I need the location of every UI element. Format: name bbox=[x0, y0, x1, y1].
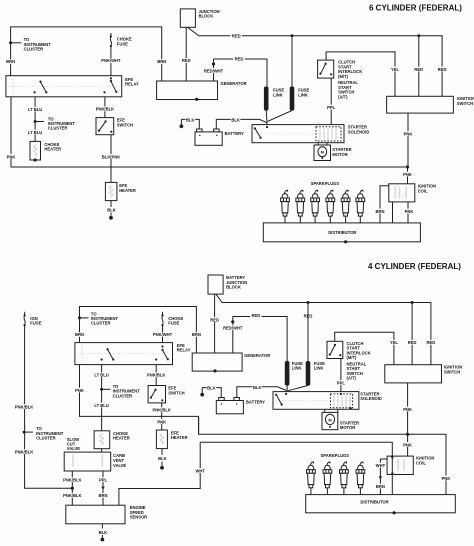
svg-text:MOTOR: MOTOR bbox=[340, 425, 355, 430]
svg-text:MOTOR: MOTOR bbox=[332, 152, 347, 157]
wire BLK + ground below sensor bbox=[101, 524, 103, 529]
wire BLK battery positive to solenoid bbox=[216, 119, 266, 129]
wire PNK ignition switch to coil bbox=[407, 113, 409, 167]
svg-text:PNK/BLK: PNK/BLK bbox=[152, 408, 170, 413]
svg-text:FUSE: FUSE bbox=[117, 41, 128, 46]
wire PNK coil to distributor bbox=[407, 202, 409, 223]
svg-text:BRN: BRN bbox=[376, 209, 385, 214]
wire RED tap 2 label bbox=[437, 67, 447, 72]
label PNK/WHT bbox=[101, 58, 121, 63]
svg-text:LINK: LINK bbox=[273, 93, 283, 98]
wire coil primary loop (bottom) bbox=[200, 442, 392, 456]
svg-text:(A/T): (A/T) bbox=[338, 95, 348, 100]
wire main feed (bottom RED bus) bbox=[216, 294, 431, 365]
svg-text:WHT: WHT bbox=[195, 469, 205, 474]
svg-text:FUSE: FUSE bbox=[30, 321, 41, 326]
switch clutch start interlock (bottom) bbox=[327, 341, 343, 358]
svg-text:BLK: BLK bbox=[158, 456, 167, 461]
svg-text:SOLENOID: SOLENOID bbox=[360, 396, 382, 401]
solenoid winding (bottom) bbox=[330, 394, 352, 408]
connector arrow (WHT to BRN) bbox=[379, 476, 382, 479]
sparkplug 5 (top) bbox=[341, 190, 350, 223]
svg-text:PNK/BLK: PNK/BLK bbox=[96, 107, 114, 112]
wire coil secondary to distributor bbox=[392, 202, 394, 223]
svg-text:CLUSTER: CLUSTER bbox=[91, 321, 111, 326]
wire RED to fuse link 1 bbox=[214, 59, 268, 87]
wire PNK bus (bottom) bbox=[199, 416, 446, 494]
wire instrument cluster loop (BRN) bbox=[11, 27, 162, 81]
battery B2 (bottom) bbox=[219, 398, 225, 401]
svg-text:SPARKPLUGS: SPARKPLUGS bbox=[311, 181, 340, 186]
battery B1 (top) bbox=[197, 129, 203, 132]
battery junction block (bottom) bbox=[208, 275, 223, 294]
node to instrument cluster (ign fuse wire) bbox=[23, 431, 26, 434]
switch clutch start interlock (top) bbox=[318, 60, 334, 78]
svg-text:PNK: PNK bbox=[7, 154, 16, 159]
svg-text:BATTERY: BATTERY bbox=[246, 399, 265, 404]
wire RED tap 2 label (bottom) bbox=[426, 340, 436, 345]
svg-text:HEATER: HEATER bbox=[171, 435, 188, 440]
wire BLK + ground below EFE heater (bottom) bbox=[161, 449, 163, 455]
svg-text:PPL: PPL bbox=[327, 105, 336, 110]
svg-text:PNK/WHT: PNK/WHT bbox=[153, 332, 173, 337]
svg-text:PNK/BLK: PNK/BLK bbox=[147, 373, 165, 378]
sparkplug 1 (bottom) bbox=[307, 462, 316, 495]
distributor (bottom) bbox=[306, 495, 456, 513]
label PNK/WHT (bottom) bbox=[153, 332, 173, 337]
node fuse link 2 tap (bottom) bbox=[307, 301, 310, 304]
svg-text:LINK: LINK bbox=[314, 366, 324, 371]
svg-text:GENERATOR: GENERATOR bbox=[244, 353, 270, 358]
wire PPL interlock to solenoid bbox=[330, 78, 332, 125]
svg-text:LT BLU: LT BLU bbox=[28, 107, 42, 112]
svg-text:SPARKPLUGS: SPARKPLUGS bbox=[321, 453, 350, 458]
svg-text:GENERATOR: GENERATOR bbox=[221, 81, 247, 86]
wire PNK/BLK relay to EFE switch bbox=[104, 97, 106, 118]
sparkplug 4 (top) bbox=[326, 190, 335, 223]
svg-text:YEL: YEL bbox=[391, 67, 400, 72]
svg-text:RED: RED bbox=[438, 67, 447, 72]
wire PNK/BLK valve to sensor bbox=[71, 471, 73, 505]
svg-text:CLUSTER: CLUSTER bbox=[48, 126, 68, 131]
svg-text:(M/T): (M/T) bbox=[338, 74, 349, 79]
switch EFE SWITCH (top) bbox=[96, 118, 114, 135]
svg-text:PNK/BLK: PNK/BLK bbox=[15, 404, 33, 409]
node ignition switch RED tap bbox=[417, 34, 420, 37]
wire RED tap 1 bbox=[418, 36, 420, 97]
wire PPL/BRN valve to sensor bbox=[102, 471, 104, 505]
wire BLK battery positive to solenoid (bottom) bbox=[237, 387, 286, 398]
wire RED junction block to generator bbox=[185, 27, 187, 81]
wire instrument cluster loop (BRN, bottom diagram) bbox=[80, 307, 197, 354]
wire WHT/BRN coil to distributor (bottom) bbox=[380, 459, 387, 495]
svg-text:PNK: PNK bbox=[405, 209, 414, 214]
svg-text:PNK: PNK bbox=[157, 419, 166, 424]
wire RED to fuse link 1 (bottom) bbox=[233, 317, 287, 362]
svg-text:RED: RED bbox=[182, 58, 191, 63]
node to instrument cluster (LT BLU, bottom) bbox=[100, 388, 103, 391]
wire LT BLU relay to choke heater (bottom) bbox=[101, 365, 103, 431]
svg-text:WHT: WHT bbox=[376, 463, 386, 468]
fuse IGN FUSE bbox=[24, 312, 26, 315]
svg-text:6 CYLINDER (FEDERAL): 6 CYLINDER (FEDERAL) bbox=[369, 4, 462, 13]
junction block J1 bbox=[180, 9, 195, 27]
fuse link 1 bbox=[264, 87, 269, 111]
solenoid winding bbox=[316, 127, 341, 141]
relay switch contact left (bottom) bbox=[101, 358, 103, 360]
svg-text:RED: RED bbox=[427, 340, 436, 345]
wire BLK + ground below EFE heater bbox=[110, 201, 112, 207]
ignition switch (top) bbox=[387, 96, 454, 113]
node fuse link 2 tap bbox=[291, 34, 294, 37]
svg-text:BRN: BRN bbox=[376, 484, 385, 489]
svg-text:BLK/PNK: BLK/PNK bbox=[102, 154, 120, 159]
svg-text:PNK: PNK bbox=[442, 476, 451, 481]
fuse link 2 bbox=[291, 36, 293, 87]
svg-text:BLK: BLK bbox=[107, 207, 116, 212]
node junction ign fuse + carb valve wire bbox=[71, 487, 74, 490]
svg-text:PNK: PNK bbox=[75, 388, 84, 393]
svg-text:VALVE: VALVE bbox=[113, 463, 126, 468]
coil IGNITION COIL (bottom) bbox=[387, 456, 413, 474]
svg-text:(M/T): (M/T) bbox=[347, 355, 358, 360]
svg-text:BLK: BLK bbox=[231, 117, 240, 122]
svg-text:DISTRIBUTOR: DISTRIBUTOR bbox=[360, 500, 388, 505]
coil IGNITION COIL (top) bbox=[389, 184, 415, 202]
wire PNK/BLK ign fuse to engine speed sensor junction bbox=[25, 326, 73, 488]
choke fuse F1 bbox=[110, 33, 112, 35]
wire RED/WHT generator tap (bottom) bbox=[231, 320, 234, 323]
ground (EFE heater bottom) bbox=[160, 466, 164, 470]
node to instrument cluster (bottom left) bbox=[78, 316, 81, 319]
svg-text:CLUSTER: CLUSTER bbox=[24, 47, 44, 52]
sparkplug 2 (top) bbox=[296, 190, 305, 223]
svg-text:BLK: BLK bbox=[99, 530, 108, 535]
svg-text:CLUSTER: CLUSTER bbox=[36, 436, 56, 441]
wire PNK ignition switch to PNK bus (bottom) bbox=[407, 383, 409, 434]
svg-text:COIL: COIL bbox=[418, 188, 428, 193]
svg-text:RED: RED bbox=[232, 33, 241, 38]
ground (battery BLK) bbox=[180, 124, 184, 128]
svg-text:PNK: PNK bbox=[403, 442, 412, 447]
wire PNK relay down-left (bottom) bbox=[80, 365, 199, 417]
svg-text:RED: RED bbox=[408, 340, 417, 345]
svg-text:RED/WHT: RED/WHT bbox=[223, 326, 243, 331]
svg-text:LT BLU: LT BLU bbox=[94, 373, 108, 378]
svg-text:PNK/BLK: PNK/BLK bbox=[63, 493, 81, 498]
svg-text:BLOCK: BLOCK bbox=[199, 14, 214, 19]
wire WHT to engine speed sensor bbox=[119, 442, 200, 505]
sparkplug 1 (top) bbox=[281, 190, 290, 223]
distributor (top) bbox=[263, 223, 420, 242]
generator G1 (top) bbox=[157, 81, 218, 100]
svg-text:HEATER: HEATER bbox=[113, 436, 130, 441]
motor STARTER MOTOR (top) bbox=[317, 143, 319, 145]
wire interlock to YEL ignition feed (bottom) bbox=[335, 332, 394, 364]
relay switch contact right bbox=[110, 77, 112, 79]
svg-text:RED: RED bbox=[210, 317, 219, 322]
relay switch contact right (bottom) bbox=[161, 345, 163, 347]
wire RED battery junction block to generator bbox=[214, 294, 216, 353]
relay switch contact left bbox=[34, 91, 36, 93]
relay EFE RELAY (top) bbox=[6, 76, 122, 97]
svg-text:RED: RED bbox=[235, 57, 244, 62]
ground (EFE heater top) bbox=[109, 216, 113, 220]
svg-text:RED: RED bbox=[414, 67, 423, 72]
svg-text:PNK/BLK: PNK/BLK bbox=[63, 478, 81, 483]
svg-text:DISTRIBUTOR: DISTRIBUTOR bbox=[328, 230, 356, 235]
wire V junction into starter solenoid bbox=[266, 121, 268, 125]
wire main feed from junction block (top RED bus) bbox=[188, 27, 443, 96]
fuse link 1 (bottom) bbox=[285, 361, 290, 386]
svg-text:BRN: BRN bbox=[192, 332, 201, 337]
wire V junction into starter solenoid (bottom) bbox=[286, 390, 288, 392]
label BRN (generator wire) bbox=[157, 59, 166, 64]
wire PNK into EFE heater (bottom) bbox=[161, 416, 163, 430]
connector arrow (PPL to BRN) bbox=[101, 487, 104, 490]
relay EFE RELAY (bottom) bbox=[75, 343, 173, 365]
coil through pin dots bbox=[391, 456, 393, 458]
svg-text:CLUSTER: CLUSTER bbox=[113, 393, 133, 398]
choke heater (bottom) bbox=[94, 431, 110, 449]
svg-text:BLOCK: BLOCK bbox=[226, 285, 241, 290]
wire BRN coil to distributor bbox=[380, 186, 389, 223]
svg-text:RED/WHT: RED/WHT bbox=[204, 68, 224, 73]
svg-text:BLK: BLK bbox=[186, 117, 195, 122]
svg-text:HEATER: HEATER bbox=[44, 147, 61, 152]
wire PPL interlock to solenoid (bottom) bbox=[340, 359, 342, 392]
svg-text:LT BLU: LT BLU bbox=[94, 403, 108, 408]
svg-text:PNK/BLK: PNK/BLK bbox=[15, 450, 33, 455]
label BRN (generator feed) bbox=[192, 332, 201, 337]
svg-text:RELAY: RELAY bbox=[125, 82, 139, 87]
heater EFE HEATER (top) bbox=[105, 182, 117, 200]
wire PNK into coil (bottom) bbox=[407, 434, 409, 456]
svg-text:RELAY: RELAY bbox=[177, 348, 191, 353]
sensor ENGINE SPEED SENSOR bbox=[66, 505, 125, 524]
svg-text:PNK: PNK bbox=[404, 132, 413, 137]
svg-text:(A/T): (A/T) bbox=[347, 376, 357, 381]
svg-text:HEATER: HEATER bbox=[119, 188, 136, 193]
svg-text:BLK: BLK bbox=[207, 386, 216, 391]
label BRN (left wire) bbox=[6, 59, 15, 64]
svg-text:BRN: BRN bbox=[99, 493, 108, 498]
generator G2 (bottom) bbox=[192, 353, 242, 371]
svg-text:PNK: PNK bbox=[403, 407, 412, 412]
motor STARTER MOTOR (bottom) bbox=[324, 409, 326, 412]
wire choke heater to carb vent valve bbox=[101, 449, 103, 452]
svg-text:YEL: YEL bbox=[390, 340, 399, 345]
sparkplug 3 (bottom) bbox=[340, 462, 349, 495]
heater EFE HEATER (bottom) bbox=[156, 430, 167, 449]
ground (engine speed sensor) bbox=[101, 538, 105, 542]
svg-text:PPL: PPL bbox=[337, 380, 346, 385]
svg-text:SENSOR: SENSOR bbox=[130, 515, 148, 520]
svg-text:SWITCH: SWITCH bbox=[168, 391, 184, 396]
wire PNK relay to main horizontal bbox=[11, 97, 408, 167]
wire BLK battery negative bbox=[181, 119, 199, 129]
wire RED/WHT generator tap bbox=[212, 62, 215, 65]
svg-text:SWITCH: SWITCH bbox=[444, 370, 460, 375]
node ignition switch RED tap (bottom) bbox=[411, 301, 414, 304]
node to instrument cluster (mid) bbox=[34, 120, 37, 123]
svg-text:BRN: BRN bbox=[75, 332, 84, 337]
sparkplug 6 (top) bbox=[356, 190, 365, 223]
wire BLK/PNK EFE switch down across main horizontal into EFE heater bbox=[110, 135, 112, 183]
label RED on fuse link 2 drop bbox=[303, 313, 313, 318]
wire RED tap 1 (bottom) bbox=[411, 303, 413, 365]
node to instrument cluster (top left) bbox=[9, 41, 12, 44]
svg-text:BLK: BLK bbox=[253, 385, 262, 390]
wire PNK/BLK relay to EFE switch (bottom) bbox=[155, 365, 157, 386]
svg-text:LINK: LINK bbox=[298, 93, 308, 98]
fuse link 2 (bottom) bbox=[307, 303, 309, 362]
wire LT BLU to choke heater bbox=[34, 97, 36, 142]
svg-text:COIL: COIL bbox=[416, 460, 426, 465]
fuse CHOKE FUSE (bottom) bbox=[162, 312, 164, 315]
wire interlock to YEL ignition feed bbox=[326, 52, 395, 96]
svg-text:PPL: PPL bbox=[99, 478, 108, 483]
svg-text:BRN: BRN bbox=[6, 59, 15, 64]
wire BLK battery negative (bottom) bbox=[202, 388, 221, 398]
svg-text:4 CYLINDER (FEDERAL): 4 CYLINDER (FEDERAL) bbox=[368, 262, 461, 271]
valve box (slow cut + carb vent) bbox=[64, 452, 111, 471]
svg-text:LT BLU: LT BLU bbox=[28, 130, 42, 135]
svg-text:RED: RED bbox=[252, 313, 261, 318]
sparkplug 2 (bottom) bbox=[323, 462, 332, 495]
ground (battery BLK, bottom) bbox=[200, 393, 204, 397]
svg-text:LINK: LINK bbox=[292, 366, 302, 371]
sparkplug 4 (bottom) bbox=[356, 462, 365, 495]
ignition switch (bottom) bbox=[385, 365, 442, 383]
svg-text:SWITCH: SWITCH bbox=[117, 123, 133, 128]
label BRN (relay feed) bbox=[75, 332, 84, 337]
solenoid STARTER SOLENOID (top) bbox=[252, 125, 344, 143]
svg-text:VALVE: VALVE bbox=[67, 446, 80, 451]
svg-text:FUSE: FUSE bbox=[168, 321, 179, 326]
solenoid STARTER SOLENOID (bottom) bbox=[273, 392, 359, 410]
svg-text:SWITCH: SWITCH bbox=[457, 101, 473, 106]
wire PNK/BLK EFE switch to PNK run (bottom) bbox=[161, 403, 163, 417]
sparkplug 3 (top) bbox=[311, 190, 320, 223]
svg-text:BRN: BRN bbox=[157, 59, 166, 64]
svg-text:PNK/WHT: PNK/WHT bbox=[101, 58, 121, 63]
switch EFE SWITCH (bottom) bbox=[148, 386, 165, 403]
svg-text:BATTERY: BATTERY bbox=[225, 131, 244, 136]
choke heater (top) bbox=[30, 141, 41, 160]
wire coil secondary to distributor (bottom) bbox=[391, 475, 393, 495]
svg-text:PNK: PNK bbox=[403, 172, 412, 177]
svg-text:SOLENOID: SOLENOID bbox=[348, 130, 370, 135]
